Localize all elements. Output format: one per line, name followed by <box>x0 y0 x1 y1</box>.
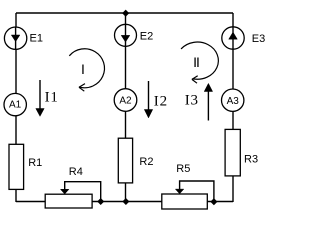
svg-text:I1: I1 <box>45 90 59 106</box>
node junction bottom (R4 tap) <box>97 198 104 205</box>
current arrow I1 <box>36 80 44 116</box>
svg-text:A2: A2 <box>119 96 132 107</box>
svg-text:II: II <box>193 54 199 70</box>
R4 wiper tap wire <box>65 182 101 202</box>
ammeter A3 <box>222 89 244 111</box>
EMF source E3 (arrow up) <box>222 27 244 49</box>
current arrow I3 (up) <box>204 83 212 120</box>
R5 wiper tap wire <box>180 181 214 202</box>
resistor R5 (rheostat) <box>162 194 208 209</box>
svg-text:R1: R1 <box>28 157 42 169</box>
node junction top (middle branch to top wire) <box>122 10 129 17</box>
wire bottom horizontal <box>16 201 233 203</box>
svg-text:R3: R3 <box>244 153 258 165</box>
resistor R3 <box>225 129 240 176</box>
loop I arc (clockwise) <box>69 49 104 91</box>
resistor R4 (rheostat) <box>45 194 92 208</box>
resistor R1 <box>9 144 24 189</box>
EMF source E1 <box>4 27 26 49</box>
svg-text:I3: I3 <box>185 93 199 109</box>
R4 wiper arrowhead <box>61 189 69 194</box>
svg-text:R4: R4 <box>69 166 83 178</box>
svg-text:I2: I2 <box>154 94 168 110</box>
EMF source E2 <box>115 24 137 46</box>
wire top horizontal <box>16 12 233 14</box>
wire left branch <box>15 13 17 202</box>
svg-text:E1: E1 <box>30 33 43 45</box>
resistor R2 <box>118 138 132 183</box>
R5 wiper arrowhead <box>175 189 183 194</box>
wire middle branch <box>125 13 127 202</box>
node junction bottom (R2 branch) <box>122 198 129 205</box>
svg-text:E3: E3 <box>252 33 265 45</box>
svg-text:R2: R2 <box>139 156 153 168</box>
loop II arc (clockwise) <box>181 42 218 83</box>
svg-text:I: I <box>81 61 85 77</box>
ammeter A1 <box>4 93 26 115</box>
svg-text:R5: R5 <box>176 163 190 175</box>
wire right branch <box>232 13 234 202</box>
ammeter A2 <box>114 89 137 112</box>
current arrow I2 <box>144 81 152 118</box>
svg-text:A1: A1 <box>9 100 22 111</box>
node junction bottom (R5 tap) <box>210 198 217 205</box>
svg-text:A3: A3 <box>227 96 240 107</box>
svg-text:E2: E2 <box>140 30 153 42</box>
